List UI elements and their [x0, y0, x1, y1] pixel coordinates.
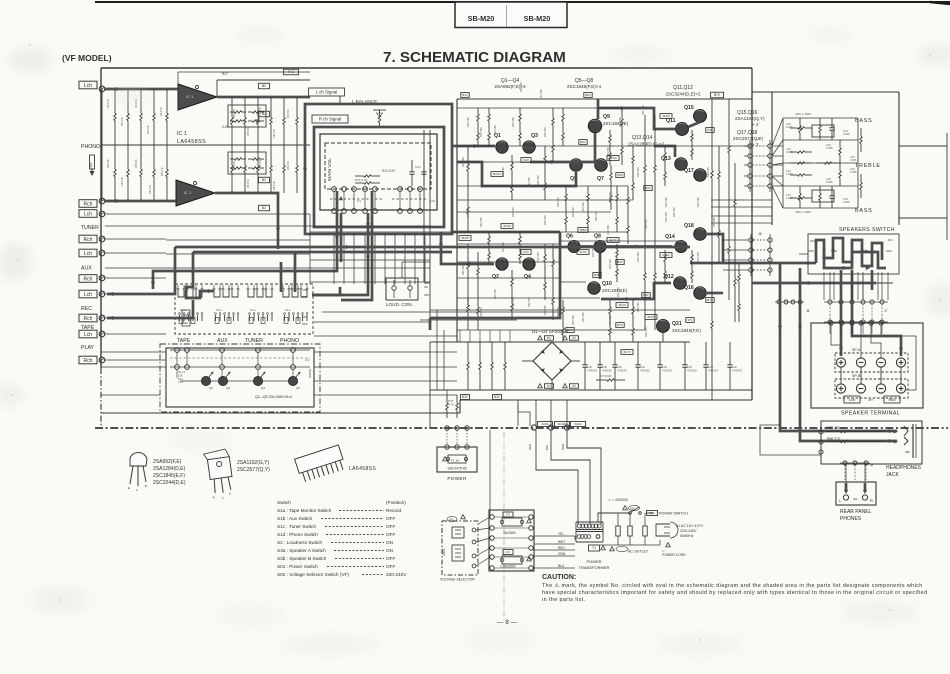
svg-text:SPEAKERS SWITCH: SPEAKERS SWITCH [839, 227, 895, 233]
svg-text:WHT: WHT [558, 540, 565, 544]
svg-text:Switch: Switch [277, 500, 291, 505]
svg-text:Q11,Q12: Q11,Q12 [673, 85, 693, 91]
svg-text:T1: T1 [592, 546, 596, 550]
svg-text:E: E [128, 486, 130, 490]
svg-text:B2V: B2V [580, 140, 586, 144]
svg-text:50/60Hz: 50/60Hz [680, 534, 694, 538]
svg-text:0.068: 0.068 [850, 170, 857, 174]
svg-text:R8 47K: R8 47K [232, 161, 236, 170]
svg-text:R40 560: R40 560 [581, 202, 585, 212]
svg-text:SPEAKER TERMINAL: SPEAKER TERMINAL [841, 411, 900, 417]
svg-text:36.8V: 36.8V [662, 114, 670, 118]
svg-text:in the parts list.: in the parts list. [542, 597, 586, 603]
svg-text:R40 560: R40 560 [618, 117, 622, 127]
svg-text:ON: ON [386, 548, 393, 553]
svg-text:LA6458SS: LA6458SS [177, 139, 206, 145]
svg-text:B2: B2 [262, 84, 266, 88]
svg-text:4700/35: 4700/35 [587, 369, 597, 373]
svg-text:— 8 —: — 8 — [497, 619, 518, 626]
svg-text:OFF: OFF [302, 295, 308, 299]
svg-text:OFF: OFF [386, 556, 396, 561]
svg-text:0.068: 0.068 [843, 200, 850, 204]
svg-text:R8 47K: R8 47K [106, 159, 110, 168]
svg-text:0.068: 0.068 [786, 150, 793, 154]
svg-text:LA6458SS: LA6458SS [349, 466, 376, 472]
svg-text:4700/35: 4700/35 [602, 369, 612, 373]
svg-text:ON: ON [888, 238, 893, 242]
svg-text:R40 560: R40 560 [493, 125, 497, 135]
svg-text:R14: R14 [178, 377, 183, 381]
svg-text:R8 47K: R8 47K [120, 117, 124, 126]
svg-text:HEADPHONES: HEADPHONES [886, 465, 922, 471]
svg-text:R40 560: R40 560 [581, 312, 585, 322]
svg-text:OFF: OFF [386, 532, 396, 537]
svg-text:S1b : Aux Switch: S1b : Aux Switch [277, 516, 313, 521]
svg-text:Q2: Q2 [492, 274, 499, 280]
svg-text:R8 47K: R8 47K [120, 177, 124, 186]
svg-text:Rch: Rch [84, 237, 93, 243]
svg-text:S1-a: S1-a [216, 308, 222, 312]
svg-text:J8: J8 [870, 463, 874, 467]
svg-text:OFF: OFF [886, 249, 892, 253]
svg-text:VR5-3 100K: VR5-3 100K [795, 210, 811, 214]
svg-text:J6: J6 [758, 232, 762, 236]
svg-text:Lch: Lch [84, 292, 92, 298]
svg-text:Q5: Q5 [296, 386, 300, 390]
svg-text:R40 560: R40 560 [636, 252, 640, 262]
svg-text:Q2: Q2 [209, 386, 213, 390]
svg-text:R: R [870, 498, 873, 503]
svg-text:AUX: AUX [217, 338, 228, 344]
svg-text:Lch: Lch [84, 332, 92, 338]
svg-text:Q11: Q11 [666, 118, 676, 124]
svg-text:S1a : Tape Monitor Switch: S1a : Tape Monitor Switch [277, 508, 332, 513]
svg-text:(Position): (Position) [386, 500, 406, 505]
svg-text:2SA1284(D,E): 2SA1284(D,E) [153, 466, 186, 472]
svg-text:S1d : Phono Switch: S1d : Phono Switch [277, 532, 318, 537]
svg-text:Rch: Rch [84, 358, 93, 364]
svg-text:Q4: Q4 [524, 274, 531, 280]
svg-text:R40 560: R40 560 [571, 315, 575, 325]
svg-text:4700/35: 4700/35 [662, 369, 672, 373]
svg-text:BASS: BASS [855, 118, 873, 124]
svg-text:REC: REC [81, 306, 92, 312]
svg-text:VOLTAGE SELECTOR: VOLTAGE SELECTOR [440, 578, 475, 582]
svg-text:Rch: Rch [888, 397, 895, 402]
svg-text:LOUD. CON.: LOUD. CON. [386, 302, 413, 307]
svg-text:C40: C40 [662, 365, 667, 369]
svg-text:Rch: Rch [84, 202, 93, 208]
svg-text:1x8: 1x8 [430, 199, 435, 203]
svg-text:R40 560: R40 560 [461, 157, 465, 167]
svg-text:C40: C40 [732, 365, 737, 369]
svg-text:R40 560: R40 560 [606, 225, 610, 235]
svg-text:R40 560: R40 560 [608, 192, 612, 202]
svg-text:R40 560: R40 560 [556, 197, 560, 207]
svg-text:0.068: 0.068 [843, 132, 850, 136]
svg-text:2SC1845(F,E): 2SC1845(F,E) [672, 328, 701, 333]
svg-text:22K: 22K [178, 373, 183, 377]
svg-text:7. SCHEMATIC DIAGRAM: 7. SCHEMATIC DIAGRAM [383, 49, 566, 66]
svg-text:F2: F2 [506, 513, 510, 517]
svg-text:S3a: S3a [831, 249, 837, 253]
svg-text:ORN: ORN [561, 444, 565, 450]
svg-text:R40 560: R40 560 [466, 117, 470, 127]
svg-text:R40 560: R40 560 [594, 211, 598, 221]
svg-text:4.7K: 4.7K [178, 380, 184, 384]
svg-text:TAPE: TAPE [81, 325, 95, 331]
svg-text:0.068: 0.068 [826, 180, 833, 184]
svg-text:R8 47K: R8 47K [160, 167, 164, 176]
svg-text:BLK: BLK [545, 445, 549, 450]
svg-text:R8 47K: R8 47K [246, 127, 250, 136]
svg-text:Lch: Lch [84, 251, 92, 257]
svg-text:AC OUTLET: AC OUTLET [628, 550, 649, 554]
svg-text:J 4: J 4 [305, 358, 309, 362]
svg-text:37V: 37V [687, 318, 692, 322]
svg-text:TAPE: TAPE [177, 338, 191, 344]
svg-text:REAR PANEL: REAR PANEL [840, 509, 872, 515]
svg-text:AUX: AUX [81, 266, 92, 272]
svg-text:R40 560: R40 560 [479, 127, 483, 137]
svg-text:S1c : Tuner Switch: S1c : Tuner Switch [277, 524, 316, 529]
svg-text:R8 47K: R8 47K [148, 185, 152, 194]
svg-text:0.068: 0.068 [826, 146, 833, 150]
svg-text:240V: 240V [442, 548, 446, 556]
svg-text:B4B: B4B [594, 273, 600, 277]
svg-text:0.6V: 0.6V [523, 250, 529, 254]
svg-text:RED: RED [528, 444, 532, 450]
svg-text:REC: REC [183, 322, 188, 325]
svg-text:OFF: OFF [386, 524, 396, 529]
svg-text:#1 AC 110~127V: #1 AC 110~127V [676, 524, 704, 528]
svg-text:B2: B2 [262, 112, 266, 116]
svg-text:B36: B36 [617, 173, 623, 177]
svg-text:R40 560: R40 560 [672, 207, 676, 217]
svg-text:VR5-2 100K: VR5-2 100K [795, 112, 811, 116]
svg-text:TAPE: TAPE [183, 314, 189, 317]
svg-text:D1: D1 [572, 336, 576, 340]
svg-text:Record: Record [386, 508, 402, 513]
svg-text:PHONES: PHONES [840, 516, 862, 522]
svg-text:R40 560: R40 560 [664, 197, 668, 207]
svg-text:B2: B2 [262, 178, 266, 182]
svg-text:2SC1845(F,E)×4: 2SC1845(F,E)×4 [567, 84, 602, 89]
svg-text:Q10: Q10 [602, 281, 612, 287]
svg-text:2SC3244(D,E): 2SC3244(D,E) [153, 480, 186, 486]
svg-text:R40 560: R40 560 [511, 207, 515, 217]
svg-text:Q4: Q4 [261, 386, 265, 390]
svg-text:OFF: OFF [386, 516, 396, 521]
svg-text:R40 560: R40 560 [536, 175, 540, 185]
svg-text:J2: J2 [757, 137, 761, 141]
svg-text:C40: C40 [587, 365, 592, 369]
svg-text:Lch: Lch [849, 397, 855, 402]
svg-text:F1 1A: F1 1A [451, 459, 459, 463]
svg-text:/220-240V: /220-240V [680, 529, 697, 533]
svg-text:J05: J05 [905, 450, 910, 454]
svg-text:L ch Signal: L ch Signal [316, 90, 338, 95]
svg-text:34.5V: 34.5V [579, 250, 587, 254]
svg-text:0.068: 0.068 [850, 158, 857, 162]
svg-text:R40 560: R40 560 [543, 127, 547, 137]
svg-text:35.8V: 35.8V [503, 224, 511, 228]
svg-text:R8 47K: R8 47K [272, 181, 276, 190]
svg-text:2SA1102(G,Y): 2SA1102(G,Y) [237, 460, 269, 466]
svg-text:SB-M20: SB-M20 [468, 14, 495, 23]
svg-text:C23: C23 [415, 165, 421, 169]
svg-text:Q2—Q5 S30-0469-05×4: Q2—Q5 S30-0469-05×4 [255, 395, 292, 399]
svg-text:TUNER: TUNER [245, 338, 263, 344]
svg-text:IC 1: IC 1 [177, 131, 187, 137]
svg-text:R40 560: R40 560 [479, 217, 483, 227]
svg-text:D1—D4 SP200L-4: D1—D4 SP200L-4 [532, 329, 569, 334]
svg-text:R8 47K: R8 47K [286, 161, 290, 170]
svg-text:C40: C40 [708, 365, 713, 369]
svg-text:R26 8.2K: R26 8.2K [355, 178, 368, 182]
svg-text:C: C [136, 488, 138, 492]
svg-text:R40 560: R40 560 [493, 289, 497, 299]
svg-text:R40 560: R40 560 [644, 327, 648, 337]
svg-text:R40 560: R40 560 [644, 219, 648, 229]
svg-text:B0V: B0V [643, 293, 649, 297]
svg-text:S02: S02 [449, 518, 454, 522]
svg-text:S2 : Loudness Switch: S2 : Loudness Switch [277, 540, 322, 545]
svg-text:BLU: BLU [558, 564, 565, 568]
svg-text:GRN: GRN [558, 552, 566, 556]
svg-text:Q21: Q21 [672, 321, 682, 327]
svg-text:IC 1: IC 1 [186, 94, 194, 99]
svg-text:F3: F3 [506, 550, 510, 554]
svg-text:3A/250V: 3A/250V [503, 531, 517, 535]
svg-text:B4.6V: B4.6V [493, 172, 501, 176]
svg-text:PLAY: PLAY [81, 345, 94, 351]
svg-text:Q15: Q15 [684, 105, 694, 111]
svg-text:S02 : Voltage Selector Switc: S02 : Voltage Selector Switch (VF) [277, 572, 349, 577]
svg-text:2SA992(F,E): 2SA992(F,E) [153, 459, 182, 465]
svg-text:× 2: × 2 [752, 122, 759, 127]
svg-text:POWER: POWER [586, 559, 601, 564]
svg-text:IC 1: IC 1 [184, 190, 192, 195]
svg-text:SP-B: SP-B [852, 374, 861, 378]
svg-text:POWER CORD: POWER CORD [662, 553, 686, 557]
svg-text:0.6V: 0.6V [523, 158, 529, 162]
svg-text:ON: ON [303, 315, 307, 319]
svg-text:S01 : Power Switch: S01 : Power Switch [277, 564, 318, 569]
svg-text:ON: ON [303, 288, 307, 292]
svg-text:J01: J01 [853, 497, 858, 501]
svg-text:The ⚠ mark, the symbol No. c: The ⚠ mark, the symbol No. circled with … [542, 583, 923, 589]
svg-text:PHONO: PHONO [81, 144, 100, 150]
svg-text:B2: B2 [262, 206, 266, 210]
svg-text:2SC1845(E,F): 2SC1845(E,F) [153, 473, 185, 479]
svg-text:2SC1845(E): 2SC1845(E) [602, 288, 628, 293]
svg-text:R40 560: R40 560 [571, 207, 575, 217]
svg-text:34.2V: 34.2V [662, 253, 670, 257]
svg-text:35BV: 35BV [579, 228, 586, 232]
svg-text:Lch: Lch [84, 83, 92, 89]
svg-text:B2V: B2V [617, 260, 623, 264]
svg-text:2SA1102(Q,Y): 2SA1102(Q,Y) [735, 116, 765, 121]
svg-text:R8 47K: R8 47K [286, 109, 290, 118]
svg-text:0.068: 0.068 [786, 125, 793, 129]
svg-text:R40 560: R40 560 [536, 252, 540, 262]
svg-text:SP-A: SP-A [852, 348, 861, 352]
svg-text:B7V: B7V [714, 93, 721, 97]
svg-text:AC01: AC01 [542, 422, 549, 426]
svg-text:R25 8.2K: R25 8.2K [382, 169, 396, 173]
svg-text:(VF MODEL): (VF MODEL) [62, 53, 112, 63]
svg-text:R ch Signal: R ch Signal [319, 117, 341, 122]
svg-text:220-240V: 220-240V [386, 572, 407, 577]
svg-text:BASS: BASS [855, 208, 873, 214]
svg-text:R40 560: R40 560 [696, 197, 700, 207]
svg-text:R40 560: R40 560 [511, 117, 515, 127]
svg-text:4700/35: 4700/35 [617, 369, 627, 373]
svg-text:B: B [145, 484, 147, 488]
svg-text:R40 560: R40 560 [664, 212, 668, 222]
svg-text:Rch: Rch [84, 277, 93, 283]
svg-text:Q7: Q7 [597, 176, 604, 182]
svg-text:Q9: Q9 [603, 114, 610, 120]
svg-text:R86 270: R86 270 [827, 437, 840, 441]
svg-text:JACK: JACK [886, 472, 899, 478]
svg-text:R40 560: R40 560 [511, 297, 515, 307]
svg-text:TRANSFORMER: TRANSFORMER [579, 565, 610, 570]
svg-text:C15: C15 [222, 125, 228, 129]
svg-text:R70 230: R70 230 [600, 374, 612, 378]
svg-text:S1-a: S1-a [250, 308, 256, 312]
svg-text:R8 47K: R8 47K [134, 159, 138, 168]
svg-text:ON: ON [810, 239, 815, 243]
svg-text:S30-0475-05: S30-0475-05 [447, 467, 466, 471]
svg-text:POWER SWITCH: POWER SWITCH [659, 512, 688, 516]
svg-text:J6: J6 [806, 309, 810, 313]
svg-text:RED: RED [558, 546, 565, 550]
svg-text:0.068: 0.068 [786, 196, 793, 200]
svg-text:R1-13: R1-13 [178, 370, 186, 374]
svg-text:C40: C40 [687, 365, 692, 369]
svg-text:B2V: B2V [645, 186, 651, 190]
svg-text:S3b : Speaker B Switch: S3b : Speaker B Switch [277, 556, 327, 561]
svg-text:R85 270: R85 270 [827, 426, 840, 430]
svg-text:4.7K: 4.7K [448, 402, 454, 406]
svg-text:have special characteristics i: have special characteristics important f… [542, 590, 927, 596]
svg-text:R8 47K: R8 47K [272, 129, 276, 138]
svg-text:B7V: B7V [707, 298, 713, 302]
svg-text:R8 47K: R8 47K [146, 125, 150, 134]
svg-text:S1-a: S1-a [285, 308, 291, 312]
svg-text:C281: C281 [89, 162, 93, 170]
svg-text:R8 47K: R8 47K [258, 107, 262, 116]
svg-text:ON: ON [386, 540, 393, 545]
svg-text:OFF: OFF [808, 249, 814, 253]
svg-text:⚠ ⬭ S/N1250: ⚠ ⬭ S/N1250 [608, 498, 628, 502]
svg-text:B7V: B7V [617, 323, 623, 327]
svg-text:SB-M20: SB-M20 [524, 14, 551, 23]
svg-text:Q3: Q3 [226, 386, 230, 390]
svg-text:R-G: R-G [288, 70, 294, 74]
svg-text:R40 560: R40 560 [539, 89, 543, 99]
svg-text:D1: D1 [572, 384, 576, 388]
svg-text:C40: C40 [602, 365, 607, 369]
svg-text:Q16: Q16 [684, 285, 694, 291]
svg-text:R40 560: R40 560 [461, 265, 465, 275]
svg-text:YEL: YEL [558, 532, 564, 536]
svg-text:B3V: B3V [494, 395, 501, 399]
svg-text:R40 560: R40 560 [636, 167, 640, 177]
svg-text:4700/35: 4700/35 [708, 369, 718, 373]
svg-text:Q14: Q14 [665, 234, 675, 240]
svg-text:Rch: Rch [84, 316, 93, 322]
svg-text:PHONO: PHONO [280, 338, 299, 344]
svg-text:34.5V: 34.5V [609, 156, 617, 160]
svg-text:J7: J7 [884, 309, 888, 313]
svg-text:34.5V: 34.5V [609, 238, 617, 242]
svg-text:TUNER: TUNER [81, 225, 99, 231]
svg-text:35.6V: 35.6V [618, 303, 626, 307]
svg-text:4700/35: 4700/35 [640, 369, 650, 373]
svg-text:MAIN VOL: MAIN VOL [327, 158, 333, 181]
svg-text:Q8: Q8 [594, 234, 601, 240]
svg-text:OFF: OFF [424, 293, 430, 297]
svg-text:R8 47K: R8 47K [246, 179, 250, 188]
svg-text:R40 560: R40 560 [527, 297, 531, 307]
svg-text:C4: C4 [357, 199, 361, 203]
svg-text:4700/35: 4700/35 [687, 369, 697, 373]
svg-text:J0T: J0T [868, 398, 873, 402]
svg-text:TREBLE: TREBLE [855, 163, 881, 169]
svg-text:D1: D1 [547, 384, 551, 388]
svg-text:OFF: OFF [386, 564, 396, 569]
svg-text:35.8V: 35.8V [461, 236, 469, 240]
svg-text:R17: R17 [222, 72, 228, 76]
svg-text:OFF: OFF [302, 322, 308, 326]
svg-text:B1n: B1n [462, 93, 468, 97]
svg-text:POWER: POWER [447, 476, 467, 481]
svg-text:C40: C40 [640, 365, 645, 369]
svg-text:Q13,Q14: Q13,Q14 [632, 135, 653, 141]
svg-text:Q18: Q18 [684, 223, 694, 229]
svg-text:R40 560: R40 560 [712, 217, 716, 227]
svg-text:R40 560: R40 560 [696, 252, 700, 262]
svg-text:Lch: Lch [84, 212, 92, 218]
svg-text:Q17: Q17 [684, 168, 694, 174]
svg-text:B3V: B3V [462, 395, 469, 399]
svg-text:R40 560: R40 560 [527, 177, 531, 187]
svg-text:2SC3244(D,E)×2: 2SC3244(D,E)×2 [665, 92, 701, 97]
svg-text:R40 560: R40 560 [616, 287, 620, 297]
svg-text:CAUTION:: CAUTION: [542, 574, 576, 581]
svg-text:R40 560: R40 560 [466, 297, 470, 307]
svg-text:S3a : Speaker A Switch: S3a : Speaker A Switch [277, 548, 326, 553]
svg-text:Q3: Q3 [531, 133, 538, 139]
svg-text:R40 560: R40 560 [543, 305, 547, 315]
svg-text:B6n: B6n [585, 93, 591, 97]
svg-text:0.068: 0.068 [786, 172, 793, 176]
svg-text:R8 47K: R8 47K [232, 109, 236, 118]
svg-text:R40 560: R40 560 [706, 167, 710, 177]
svg-text:36.7V: 36.7V [623, 350, 631, 354]
svg-text:2SC2577(Q,Y): 2SC2577(Q,Y) [237, 467, 270, 473]
svg-text:R8 47K: R8 47K [258, 159, 262, 168]
svg-text:4700/35: 4700/35 [732, 369, 742, 373]
svg-text:R40 560: R40 560 [608, 259, 612, 269]
svg-text:D1: D1 [547, 336, 551, 340]
svg-text:P30: P30 [707, 128, 713, 132]
svg-text:R40 560: R40 560 [543, 215, 547, 225]
svg-text:R8 47K: R8 47K [106, 99, 110, 108]
